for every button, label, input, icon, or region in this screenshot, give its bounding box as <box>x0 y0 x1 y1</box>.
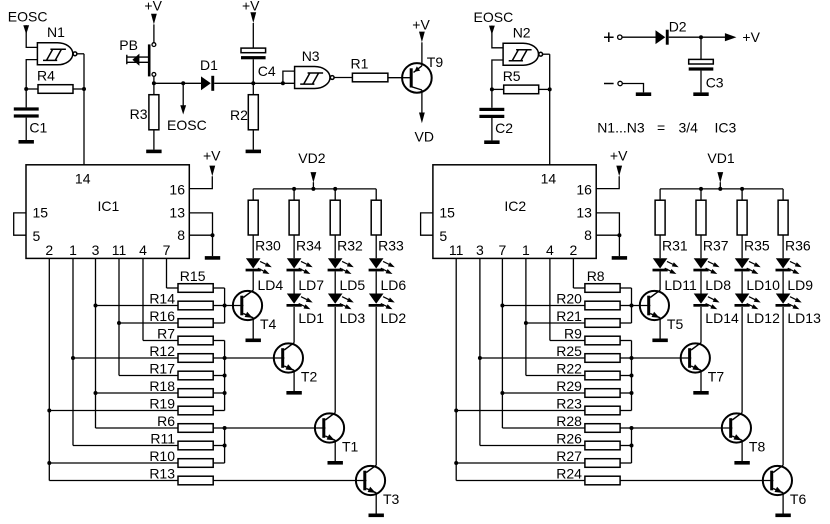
IC IC2 <box>433 165 596 259</box>
svg-text:T3: T3 <box>383 491 400 507</box>
wire node to N3 inputs <box>253 71 294 83</box>
svg-text:R17: R17 <box>149 360 175 376</box>
wire node to R2 <box>252 83 254 94</box>
junction <box>94 304 98 308</box>
svg-text:D1: D1 <box>200 57 218 73</box>
wire base of T8 <box>632 427 733 429</box>
wire capacitor to ground <box>491 118 493 140</box>
svg-text:IC2: IC2 <box>504 198 526 214</box>
junction EOSC tap <box>181 81 185 85</box>
svg-text:16: 16 <box>576 181 592 197</box>
svg-text:3: 3 <box>476 242 484 258</box>
wire from pin 1 <box>525 258 527 375</box>
wire to resistor R27 <box>456 462 585 464</box>
transistor T3 <box>356 465 385 495</box>
wire T9 collector to VD <box>421 90 423 113</box>
wire bus <box>224 428 226 463</box>
ground <box>19 140 34 144</box>
EOSC output arrow <box>182 83 184 105</box>
svg-text:R13: R13 <box>149 465 175 481</box>
junction rail <box>333 187 337 191</box>
pin 13 wire <box>596 213 619 235</box>
wire LED supply rail <box>253 188 376 190</box>
wire C4 to node <box>252 59 254 83</box>
ground (R2) <box>246 150 261 154</box>
svg-text:IC3: IC3 <box>715 120 737 136</box>
svg-text:T8: T8 <box>749 439 766 455</box>
wire resistor to bus <box>620 287 631 289</box>
wire to resistor R20 <box>502 305 585 307</box>
resistor R14 <box>178 301 213 310</box>
wire emitter of T3 <box>375 493 377 514</box>
svg-text:R23: R23 <box>556 395 582 411</box>
wire bus <box>224 288 226 323</box>
svg-text:R18: R18 <box>149 378 175 394</box>
wire resistor to bus <box>213 375 224 377</box>
svg-text:R3: R3 <box>130 106 148 122</box>
LED LD11 <box>653 258 679 274</box>
svg-text:15: 15 <box>33 205 49 221</box>
svg-text:PB: PB <box>119 37 138 53</box>
svg-text:2: 2 <box>45 242 53 258</box>
svg-text:11: 11 <box>449 242 464 258</box>
wire from pin 2 <box>48 258 50 480</box>
wire - to ground <box>622 84 643 93</box>
+V arrow (IC supply) <box>209 166 215 177</box>
junction feedback node <box>24 87 28 91</box>
svg-text:7: 7 <box>163 242 171 258</box>
wire emitter of T8 <box>741 440 743 461</box>
wire resistor to bus <box>213 287 224 289</box>
pin 16 wire to +V <box>189 176 212 188</box>
wire +V to C4 <box>252 23 254 48</box>
junction N3 input tie <box>281 81 285 85</box>
svg-text:R7: R7 <box>157 325 175 341</box>
svg-text:EOSC: EOSC <box>474 9 514 25</box>
svg-text:1: 1 <box>69 242 77 258</box>
svg-text:2: 2 <box>570 242 578 258</box>
svg-text:4: 4 <box>139 242 147 258</box>
wire to resistor R13 <box>49 480 178 482</box>
svg-text:VD: VD <box>415 129 434 145</box>
resistor R27 <box>585 459 620 468</box>
svg-text:LD5: LD5 <box>340 277 366 293</box>
svg-text:8: 8 <box>177 227 185 243</box>
resistor R15 <box>178 284 213 293</box>
+V arrow <box>250 12 256 23</box>
wire feedback node to resistor <box>492 88 504 90</box>
junction feedback node <box>490 87 494 91</box>
svg-text:+V: +V <box>742 29 760 45</box>
wire emitter of T7 <box>700 370 702 391</box>
wire +V to T9 emitter <box>421 42 423 66</box>
junction switch node <box>152 81 156 85</box>
svg-text:16: 16 <box>169 181 185 197</box>
wire rail to resistor R36 <box>782 189 784 200</box>
ground (T6 emitter) <box>775 514 790 518</box>
resistor R5 <box>504 85 539 94</box>
svg-text:R33: R33 <box>378 237 404 253</box>
inverter N3 <box>295 67 335 89</box>
ground (IC pins 13,8) <box>612 256 627 260</box>
junction bus <box>223 391 227 395</box>
wire to resistor R14 <box>96 305 179 307</box>
wire to resistor R15 <box>167 287 179 289</box>
svg-text:R14: R14 <box>149 290 175 306</box>
wire resistor to bus <box>620 410 631 412</box>
VD output arrow <box>419 113 425 124</box>
junction bus <box>630 426 634 430</box>
IC IC1 <box>26 165 189 259</box>
wire D1 to C4 node <box>214 82 253 84</box>
wire resistor to bus <box>213 357 224 359</box>
resistor R28 <box>585 424 620 433</box>
junction bus <box>223 374 227 378</box>
node - input label <box>604 83 614 85</box>
svg-text:+V: +V <box>412 16 430 32</box>
wire EOSC to gate input <box>26 25 37 47</box>
svg-text:LD4: LD4 <box>258 277 284 293</box>
resistor R36 <box>778 200 788 235</box>
ground (T4 emitter) <box>246 339 261 343</box>
svg-text:R25: R25 <box>556 343 582 359</box>
svg-text:R15: R15 <box>180 268 206 284</box>
svg-text:+V: +V <box>144 0 162 14</box>
wire rail to resistor R34 <box>293 189 295 200</box>
ground (T1 emitter) <box>328 461 343 465</box>
wire from pin 11 <box>455 258 457 480</box>
wire from pin 11 <box>118 258 120 375</box>
svg-text:T7: T7 <box>708 369 725 385</box>
svg-text:C4: C4 <box>258 63 276 79</box>
junction bus <box>223 426 227 430</box>
svg-text:R20: R20 <box>556 290 582 306</box>
inverter N1 <box>37 43 77 65</box>
wire bus <box>631 341 633 411</box>
wire to resistor R24 <box>456 480 585 482</box>
terminal - input <box>618 81 622 85</box>
resistor R19 <box>178 406 213 415</box>
svg-text:LD13: LD13 <box>787 310 821 326</box>
svg-text:LD3: LD3 <box>340 310 366 326</box>
junction rail <box>292 187 296 191</box>
wire to resistor R21 <box>526 322 585 324</box>
wire rail to resistor R32 <box>334 189 336 200</box>
svg-text:EOSC: EOSC <box>167 117 207 133</box>
wire gate output <box>543 53 550 55</box>
LED LD12 <box>735 294 761 310</box>
EOSC input arrow <box>23 25 29 34</box>
resistor R6 <box>178 424 213 433</box>
wire gate lower input to feedback node <box>492 60 503 89</box>
resistor R26 <box>585 441 620 450</box>
wire to resistor R16 <box>119 322 178 324</box>
LED LD5 <box>328 258 354 274</box>
wire bus <box>631 288 633 323</box>
junction <box>117 321 121 325</box>
junction bus <box>630 374 634 378</box>
wire to resistor R8 <box>573 287 585 289</box>
ground (T2 emitter) <box>286 391 301 395</box>
junction bus <box>223 356 227 360</box>
svg-text:14: 14 <box>75 171 91 187</box>
svg-text:LD6: LD6 <box>381 277 407 293</box>
wire resistor to LED LD4 <box>252 235 254 258</box>
wire LED supply rail <box>660 188 783 190</box>
svg-text:LD9: LD9 <box>787 277 813 293</box>
ground (T3 emitter) <box>369 514 384 518</box>
ground <box>484 140 499 144</box>
resistor R35 <box>737 200 747 235</box>
wire base of T2 <box>225 357 285 359</box>
svg-text:LD11: LD11 <box>664 277 697 293</box>
wire resistor to bus <box>620 375 631 377</box>
+V arrow <box>419 32 425 43</box>
svg-text:4: 4 <box>546 242 554 258</box>
wire feedback node to resistor <box>26 88 38 90</box>
wire resistor to LED LD10 <box>741 235 743 258</box>
resistor R25 <box>585 354 620 363</box>
wire resistor to bus <box>213 305 224 307</box>
wire base of T5 <box>632 305 651 307</box>
junction output node <box>548 87 552 91</box>
wire EOSC to gate input <box>492 26 503 48</box>
svg-text:T5: T5 <box>667 316 684 332</box>
junction bus <box>223 444 227 448</box>
LED LD3 <box>328 294 354 310</box>
node + input label <box>604 32 614 42</box>
capacitor C1 <box>14 107 39 117</box>
svg-text:R12: R12 <box>149 343 175 359</box>
junction <box>47 461 51 465</box>
svg-text:+V: +V <box>203 147 221 163</box>
diode D2 <box>656 30 669 45</box>
LED LD14 <box>693 294 719 310</box>
pin 8 wire <box>189 235 212 256</box>
junction output node <box>82 87 86 91</box>
resistor R3 <box>149 95 159 130</box>
svg-text:T6: T6 <box>790 491 807 507</box>
wire to resistor R11 <box>73 445 178 447</box>
wire to resistor R29 <box>502 392 585 394</box>
push button PB <box>127 43 156 77</box>
wire to resistor R26 <box>480 445 585 447</box>
svg-text:=: = <box>657 120 665 136</box>
resistor R1 <box>352 73 388 82</box>
wire resistor to bus <box>620 322 631 324</box>
wire R1 to T9 base <box>388 77 412 79</box>
resistor R29 <box>585 389 620 398</box>
wire LED to collector of T4 <box>252 271 254 290</box>
wire rail to resistor R35 <box>741 189 743 200</box>
LED LD4 <box>246 258 272 274</box>
wire resistor to LED LD5 <box>334 235 336 258</box>
wire from pin 7 <box>166 258 168 288</box>
wire LED to collector of T8 <box>741 307 743 413</box>
svg-text:R27: R27 <box>556 448 582 464</box>
svg-text:R35: R35 <box>744 237 770 253</box>
junction <box>47 409 51 413</box>
wire to resistor R12 <box>73 357 178 359</box>
resistor R30 <box>248 200 258 235</box>
transistor T4 <box>233 290 262 320</box>
wire resistor to output node <box>73 88 84 90</box>
svg-text:EOSC: EOSC <box>8 9 48 25</box>
wire from pin 3 <box>479 258 481 445</box>
svg-text:C2: C2 <box>495 120 513 136</box>
capacitor C3 <box>689 59 714 70</box>
resistor R22 <box>585 371 620 380</box>
wire gate lower input to feedback node <box>26 60 37 89</box>
svg-text:R6: R6 <box>157 413 175 429</box>
svg-text:R5: R5 <box>503 68 521 84</box>
wire LED LD9 to LED LD13 <box>782 271 784 293</box>
wire to resistor R6 <box>96 427 179 429</box>
resistor R21 <box>585 319 620 328</box>
junction rail <box>311 187 315 191</box>
wire resistor to bus <box>620 445 631 447</box>
resistor R33 <box>371 200 381 235</box>
resistor R20 <box>585 301 620 310</box>
junction rail <box>718 187 722 191</box>
wire LED LD8 to LED LD14 <box>700 271 702 293</box>
wire resistor to bus <box>620 305 631 307</box>
transistor T6 <box>763 465 792 495</box>
wire LED to collector of T2 <box>293 307 295 343</box>
LED LD8 <box>693 258 719 274</box>
ground (T7 emitter) <box>693 391 708 395</box>
svg-text:R36: R36 <box>785 237 811 253</box>
wire rail to resistor R31 <box>659 189 661 200</box>
capacitor C4 <box>241 48 266 59</box>
svg-text:R4: R4 <box>37 68 55 84</box>
LED LD10 <box>735 258 761 274</box>
junction <box>478 356 482 360</box>
wire to resistor R22 <box>526 375 585 377</box>
wire resistor to LED LD11 <box>659 235 661 258</box>
wire from pin 3 <box>95 258 97 428</box>
svg-text:LD8: LD8 <box>705 277 731 293</box>
svg-text:R29: R29 <box>556 378 582 394</box>
wire to resistor R23 <box>456 410 585 412</box>
wire bus <box>224 341 226 411</box>
wire base of T4 <box>225 305 244 307</box>
wire output down to IC pin 14 <box>83 54 85 165</box>
junction rail <box>699 187 703 191</box>
wire rail to resistor R30 <box>252 189 254 200</box>
svg-text:13: 13 <box>169 205 185 221</box>
ground (IC pins 13,8) <box>205 256 220 260</box>
resistor R31 <box>655 200 665 235</box>
junction bus <box>223 304 227 308</box>
junction bus <box>630 356 634 360</box>
inverter N2 <box>503 43 542 65</box>
svg-text:15: 15 <box>439 205 455 221</box>
svg-text:R31: R31 <box>662 237 688 253</box>
transistor T5 <box>640 290 669 320</box>
wire base of T3 <box>213 480 366 482</box>
resistor R7 <box>178 336 213 345</box>
junction pins 13/8 <box>617 233 621 237</box>
svg-text:R19: R19 <box>149 395 175 411</box>
svg-text:3: 3 <box>92 242 100 258</box>
wire to resistor R10 <box>49 462 178 464</box>
transistor T2 <box>274 343 303 373</box>
wire switch to node <box>153 76 155 83</box>
wire resistor to bus <box>213 410 224 412</box>
LED LD13 <box>776 294 802 310</box>
wire node to diode D1 <box>154 82 201 84</box>
svg-text:LD1: LD1 <box>298 310 324 326</box>
svg-text:N3: N3 <box>302 48 320 64</box>
resistor R17 <box>178 371 213 380</box>
wire resistor to bus <box>213 462 224 464</box>
+V arrow <box>151 14 157 25</box>
svg-text:R8: R8 <box>587 268 605 284</box>
svg-text:8: 8 <box>584 227 592 243</box>
wire gate output <box>77 53 84 55</box>
svg-text:R9: R9 <box>564 325 582 341</box>
wire VD1 to rail <box>719 182 721 189</box>
pin 16 wire to +V <box>596 176 619 188</box>
wire to resistor R17 <box>119 375 178 377</box>
resistor R37 <box>696 200 706 235</box>
wire from pin 4 <box>142 258 144 340</box>
wire rail to resistor R37 <box>700 189 702 200</box>
wire from pin 4 <box>549 258 551 340</box>
svg-text:VD2: VD2 <box>298 150 325 166</box>
svg-text:T4: T4 <box>260 316 277 332</box>
ground (C3) <box>693 92 708 96</box>
wire resistor to bus <box>213 340 224 342</box>
wire from pin 2 <box>572 258 574 288</box>
resistor R32 <box>330 200 340 235</box>
resistor R12 <box>178 354 213 363</box>
wire resistor to LED LD9 <box>782 235 784 258</box>
wire resistor to bus <box>620 462 631 464</box>
wire emitter of T1 <box>334 440 336 461</box>
wire to resistor R28 <box>502 427 585 429</box>
wire resistor to bus <box>213 392 224 394</box>
svg-text:D2: D2 <box>669 19 687 35</box>
transistor T9 <box>402 63 432 93</box>
junction C4 node <box>251 81 255 85</box>
junction bus <box>630 391 634 395</box>
wire emitter of T5 <box>659 318 661 339</box>
svg-text:1: 1 <box>522 242 530 258</box>
svg-text:R26: R26 <box>556 430 582 446</box>
wire to resistor R7 <box>143 340 178 342</box>
wire base of T6 <box>620 480 773 482</box>
svg-text:LD7: LD7 <box>298 277 324 293</box>
wire +V to switch <box>153 24 155 42</box>
wire output down to IC pin 14 <box>549 54 551 165</box>
wire to resistor R19 <box>49 410 178 412</box>
wire resistor to LED LD7 <box>293 235 295 258</box>
wire to resistor R25 <box>480 357 585 359</box>
wire resistor to bus <box>620 427 631 429</box>
LED LD2 <box>369 294 395 310</box>
resistor R10 <box>178 459 213 468</box>
svg-text:R28: R28 <box>556 413 582 429</box>
svg-text:R37: R37 <box>703 237 729 253</box>
svg-text:5: 5 <box>33 228 41 244</box>
wire LED LD5 to LED LD3 <box>334 271 336 293</box>
svg-text:R16: R16 <box>149 308 175 324</box>
wire emitter of T2 <box>293 370 295 391</box>
wire R2 to ground <box>252 130 254 150</box>
svg-text:T9: T9 <box>427 54 444 70</box>
